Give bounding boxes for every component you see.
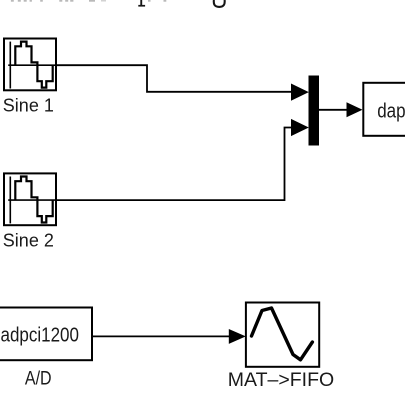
svg-text:Sine 2: Sine 2 (3, 230, 54, 250)
svg-text:adpci1200: adpci1200 (1, 324, 79, 347)
sine2 staircase wave (15, 177, 52, 223)
block Sine 2 (4, 173, 57, 225)
wire Sine1 to Mux (57, 65, 293, 92)
wire adpci1200 to MAT-FIFO (92, 335, 230, 337)
svg-text:Sine 1: Sine 1 (3, 95, 54, 115)
svg-text:MAT–>FIFO: MAT–>FIFO (228, 369, 334, 391)
block dapci1200 (clipped at right edge) (363, 83, 405, 136)
wire Sine2 to Mux (57, 128, 293, 201)
svg-text:dapci1200: dapci1200 (377, 100, 405, 123)
arrowhead into Mux input 2 (291, 119, 309, 136)
svg-text:A/D: A/D (25, 367, 52, 389)
wire Mux to dapci1200 (319, 109, 347, 111)
sine curve icon (252, 308, 313, 360)
sine1 horizontal axis (8, 64, 57, 66)
caption descender g (214, 0, 225, 7)
cropped caption letter bottoms (11, 0, 166, 2)
arrowhead into MAT-FIFO (229, 329, 246, 344)
block MAT-FIFO (246, 303, 319, 367)
sine2 horizontal axis (8, 199, 57, 201)
sine1 staircase wave (15, 42, 52, 88)
sine2 vertical axis (9, 177, 11, 224)
sine1 vertical axis (9, 42, 11, 89)
block Sine 1 (4, 39, 57, 91)
block adpci1200 (clipped at left edge) (0, 308, 92, 361)
caption descender p (138, 0, 145, 7)
Mux block (solid bar) (309, 76, 320, 146)
arrowhead into dapci1200 (347, 102, 363, 117)
arrowhead into Mux input 1 (291, 84, 309, 101)
